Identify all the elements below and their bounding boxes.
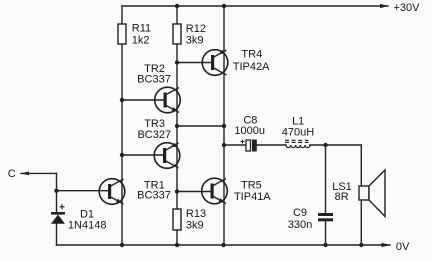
wire D1 anode to bottom rail (56, 224, 58, 245)
node dot L1 / C9 (323, 143, 327, 147)
node dot TR4 collector junction (222, 124, 226, 128)
capacitor C9 330n (318, 213, 333, 221)
svg-text:BC327: BC327 (137, 129, 171, 141)
svg-text:470uH: 470uH (282, 126, 314, 138)
wire TR4/TR5 branch vertical x=224 (223, 6, 225, 245)
resistor R12 (173, 24, 181, 44)
wire C9 branch lower (325, 222, 327, 246)
node dot rail / speaker (359, 243, 363, 247)
node dot top rail / R12 (175, 4, 179, 8)
node dot rail / R13 (175, 243, 179, 247)
svg-text:1000u: 1000u (234, 125, 265, 137)
svg-text:D1: D1 (80, 208, 94, 220)
svg-text:TIP41A: TIP41A (234, 191, 271, 203)
node dot TR4 base (175, 60, 179, 64)
svg-text:0V: 0V (396, 241, 410, 253)
wire D1 branch vertical (56, 173, 58, 212)
svg-text:TR4: TR4 (241, 49, 262, 61)
wire L1 to C9 node and speaker corner (310, 144, 361, 146)
transistor TR3 BC327 (154, 143, 180, 169)
arrow +30V rail (380, 4, 389, 8)
svg-text:330n: 330n (288, 219, 312, 231)
svg-text:+30V: +30V (394, 2, 421, 14)
transistor TR5 TIP41A (202, 178, 228, 204)
wire speaker branch upper (360, 145, 362, 186)
wire speaker branch lower (360, 200, 362, 245)
node dot TR5 base (175, 189, 179, 193)
svg-text:R13: R13 (186, 208, 206, 220)
node dot rail / TR1 (120, 243, 124, 247)
svg-text:R11: R11 (132, 23, 151, 35)
resistor R13 (173, 209, 181, 230)
wire TR3 base lead (122, 154, 163, 156)
diode D1 1N4148 (51, 204, 65, 224)
wire C8 to L1 (257, 144, 287, 146)
node dot TR3 base (120, 153, 124, 157)
wire TR1 base lead (57, 190, 109, 192)
node dot rail / TR5 (221, 243, 225, 247)
wire input C horizontal (21, 172, 57, 174)
svg-text:3k9: 3k9 (186, 219, 204, 231)
node dot rail / C9 (323, 243, 327, 247)
speaker LS1 8R (359, 170, 385, 217)
node dot TR2 base (120, 98, 124, 102)
svg-text:TR5: TR5 (241, 180, 262, 192)
wire R12 branch vertical x=177 (176, 6, 178, 245)
svg-text:1k2: 1k2 (132, 34, 150, 46)
wire R11 branch vertical x=122 (121, 6, 123, 245)
inductor L1 470uH (285, 140, 310, 147)
arrow 0V rail (382, 243, 391, 247)
resistor R11 (118, 24, 126, 44)
svg-text:C9: C9 (293, 207, 307, 219)
transistor TR1 BC337 (99, 179, 125, 205)
wire bottom rail 0V (57, 244, 391, 246)
svg-text:C: C (8, 168, 16, 180)
wire TR4 base lead (177, 62, 211, 64)
svg-text:1N4148: 1N4148 (68, 220, 107, 232)
svg-text:R12: R12 (186, 23, 206, 35)
transistor TR2 BC337 (155, 87, 181, 113)
svg-text:3k9: 3k9 (186, 35, 204, 47)
arrow input C (20, 172, 29, 176)
capacitor C8 1000u polarized (241, 140, 257, 152)
svg-text:TIP42A: TIP42A (233, 61, 270, 73)
svg-text:BC337: BC337 (137, 190, 171, 202)
transistor TR4 TIP42A (202, 50, 228, 76)
wire TR5 base lead (177, 191, 211, 193)
node dot TR2 emitter junction (175, 124, 179, 128)
svg-text:BC337: BC337 (137, 74, 171, 86)
node dot output to C8 (222, 143, 226, 147)
wire node TR2-emitter to TR4-collector y=126 (177, 125, 224, 127)
node dot top rail / TR4 (222, 4, 226, 8)
node dot D1 / TR1 base (54, 189, 58, 193)
wire TR2 base lead (122, 99, 164, 101)
wire output node to C8 (224, 144, 246, 146)
svg-text:8R: 8R (335, 191, 349, 203)
wire C9 branch upper (325, 145, 327, 213)
wire top rail +30V (122, 5, 388, 7)
